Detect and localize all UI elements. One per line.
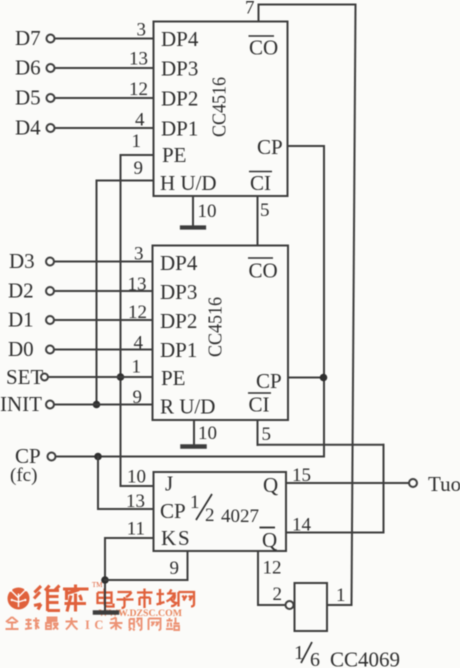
wire U3 pin12 stub down — [257, 551, 259, 605]
inverter U4 1/6 CC4069 body — [286, 583, 328, 631]
wire Qbar vertical — [383, 445, 385, 533]
svg-text:S: S — [178, 526, 190, 550]
svg-text:DP2: DP2 — [161, 87, 198, 111]
svg-text:IC: IC — [85, 618, 108, 632]
wire input D4 — [55, 127, 154, 129]
svg-text:D2: D2 — [8, 279, 34, 303]
svg-text:D7: D7 — [15, 26, 41, 50]
svg-text:1: 1 — [132, 131, 142, 152]
svg-text:CC4069: CC4069 — [330, 648, 400, 668]
svg-text:DP3: DP3 — [160, 280, 197, 304]
svg-text:CP: CP — [256, 369, 282, 393]
terminal Tuo output — [409, 479, 417, 487]
wire CI2 row to Qbar vertical — [258, 444, 384, 446]
svg-text:Q: Q — [263, 473, 278, 497]
svg-text:D6: D6 — [15, 56, 41, 80]
svg-text:D0: D0 — [8, 337, 34, 361]
svg-text:12: 12 — [128, 302, 147, 323]
terminal CP(fc) — [48, 453, 56, 461]
terminal D3 — [46, 258, 54, 266]
svg-text:H U/D: H U/D — [160, 171, 217, 195]
svg-text:D5: D5 — [15, 86, 41, 110]
svg-text:D1: D1 — [8, 308, 34, 332]
ground U1 pin10 stem — [192, 196, 194, 227]
svg-text:PE: PE — [161, 366, 186, 390]
node junction INIT-HUD — [93, 401, 101, 409]
svg-text:2: 2 — [273, 584, 283, 605]
watermark brand text 维库 (stylized) — [34, 585, 89, 612]
ground U1 bar — [182, 225, 204, 229]
wire input INIT to R — [54, 404, 153, 406]
svg-text:11: 11 — [127, 519, 145, 540]
wire pin12 to inverter bubble — [258, 604, 286, 606]
svg-text:3: 3 — [137, 20, 147, 41]
wire input D7 — [55, 38, 154, 40]
svg-text:(fc): (fc) — [10, 465, 37, 486]
wire CP(fc) row — [55, 456, 324, 458]
svg-text:4: 4 — [134, 333, 144, 354]
svg-text:6: 6 — [310, 649, 320, 668]
svg-text:CC4516: CC4516 — [209, 77, 231, 137]
svg-text:D4: D4 — [15, 116, 41, 140]
ground U2 pin10 stem — [193, 420, 195, 446]
wire U3 Q pin15 to Tuo — [286, 482, 409, 484]
svg-text:3: 3 — [134, 244, 144, 265]
svg-text:4: 4 — [135, 110, 145, 131]
node junction SET-PE1 — [117, 373, 125, 381]
wire CPfc down to pin13 — [97, 457, 99, 510]
watermark slogan 全球最大IC采购网站 (stylized) — [6, 617, 180, 631]
IC U2 CC4516 (lower counter) body — [153, 246, 289, 421]
svg-text:9: 9 — [133, 387, 143, 408]
svg-text:7: 7 — [245, 0, 255, 19]
svg-text:CO: CO — [249, 259, 278, 283]
wire U3 Qbar pin14 — [286, 532, 384, 534]
svg-text:K: K — [161, 526, 176, 550]
svg-text:CI: CI — [250, 171, 271, 195]
svg-text:10: 10 — [127, 467, 146, 488]
svg-text:CP: CP — [257, 135, 283, 159]
svg-text:9: 9 — [134, 158, 144, 179]
svg-text:CI: CI — [249, 393, 270, 417]
svg-text:5: 5 — [260, 200, 270, 221]
terminal D6 — [47, 64, 55, 72]
svg-text:13: 13 — [128, 274, 147, 295]
svg-text:12: 12 — [263, 558, 282, 579]
IC U3 1/2 4027 flip-flop body — [154, 472, 287, 551]
terminal INIT — [46, 401, 54, 409]
svg-text:2: 2 — [205, 505, 215, 526]
wire input D3 — [54, 261, 153, 263]
wire U2 pin5 CI stub down — [257, 420, 259, 445]
svg-text:4027: 4027 — [221, 506, 259, 527]
svg-text:INIT: INIT — [0, 392, 42, 416]
svg-text:DP4: DP4 — [160, 251, 198, 275]
svg-text:CC4516: CC4516 — [205, 297, 227, 357]
svg-text:DP1: DP1 — [161, 117, 198, 141]
wire input D5 — [55, 97, 154, 99]
svg-text:Tuo: Tuo — [428, 472, 460, 496]
svg-text:DP3: DP3 — [161, 57, 198, 81]
terminal D0 — [46, 346, 54, 354]
wire input D0 — [54, 349, 153, 351]
svg-text:10: 10 — [198, 201, 217, 222]
wire U3 pin9 stub down — [187, 551, 189, 580]
svg-text:9: 9 — [170, 558, 180, 579]
terminal D4 — [47, 124, 55, 132]
node junction K-S-ground — [101, 576, 109, 584]
terminal D5 — [47, 94, 55, 102]
wire U3 CP pin13 stub — [98, 508, 154, 510]
terminal SET — [41, 374, 48, 381]
wire U1 PE pin stub — [121, 154, 154, 156]
svg-text:CP: CP — [160, 499, 186, 523]
wire K to ground vertical — [104, 538, 106, 612]
wire U1 H U/D pin stub — [97, 180, 154, 182]
wire input SET to PE2 — [48, 376, 153, 378]
svg-text:PE: PE — [162, 143, 187, 167]
svg-text:DP2: DP2 — [160, 309, 197, 333]
svg-text:5: 5 — [262, 424, 272, 445]
svg-text:1: 1 — [336, 585, 346, 606]
wire clock vertical bus — [323, 146, 325, 457]
wire inverter pin1 input — [327, 604, 352, 606]
node junction CPfc-pin13 — [94, 453, 102, 461]
svg-text:J: J — [165, 472, 173, 496]
wire HU/D-INIT vertical — [96, 181, 98, 405]
wire input D1 — [54, 319, 153, 321]
svg-text:R U/D: R U/D — [160, 395, 215, 419]
watermark weiku logo — [8, 588, 30, 610]
svg-text:CO: CO — [249, 36, 278, 60]
ground U2 bar — [183, 444, 205, 449]
svg-text:D3: D3 — [9, 249, 35, 273]
watermark text 电子市场网 (stylized) — [98, 589, 195, 609]
wire input D2 — [54, 290, 153, 292]
wire input D6 — [55, 67, 154, 69]
wire right vertical bus CO1 to inverter input — [352, 5, 356, 606]
wire U3 K pin11 stub — [105, 537, 154, 539]
wire PE1-SET-J vertical — [120, 155, 122, 486]
svg-text:12: 12 — [129, 79, 148, 100]
svg-text:13: 13 — [126, 491, 145, 512]
svg-text:SET: SET — [6, 365, 44, 389]
node junction clock-CP2 — [320, 374, 328, 382]
svg-text:DP4: DP4 — [161, 27, 199, 51]
svg-text:13: 13 — [129, 49, 148, 70]
terminal D2 — [46, 287, 54, 295]
wire U1 pin7 CO stub up — [258, 5, 260, 22]
wire U3 J pin10 stub — [121, 485, 154, 487]
terminal D1 — [46, 316, 54, 324]
svg-text:15: 15 — [292, 465, 311, 486]
IC U1 CC4516 (upper counter) body — [154, 22, 288, 197]
svg-text:1: 1 — [132, 357, 142, 378]
wire S pin9 row — [105, 579, 188, 581]
svg-text:TM: TM — [92, 581, 103, 589]
wire U1 pin5 CI to U2 CO — [257, 196, 259, 246]
wire U2 CP pin stub — [288, 377, 324, 379]
svg-text:DP1: DP1 — [160, 338, 197, 362]
ground bottom bar — [95, 610, 117, 615]
wire top horizontal CO1 to right bus — [259, 4, 356, 6]
svg-text:10: 10 — [198, 423, 217, 444]
svg-text:14: 14 — [292, 515, 312, 536]
wire U1 CP pin to clock bus — [288, 145, 325, 147]
svg-text:1: 1 — [190, 492, 200, 513]
svg-text:Q: Q — [262, 528, 277, 552]
terminal D7 — [47, 35, 55, 43]
